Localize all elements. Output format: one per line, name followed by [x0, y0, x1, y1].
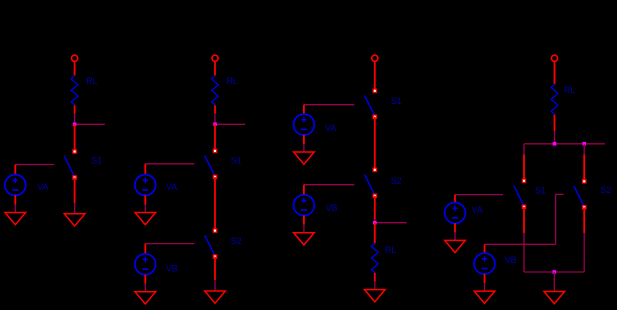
svg-text:S2: S2 — [391, 176, 402, 186]
svg-text:S2: S2 — [231, 236, 242, 246]
svg-text:RL: RL — [86, 76, 97, 86]
svg-text:S1: S1 — [231, 156, 242, 166]
svg-text:VB: VB — [166, 263, 178, 273]
svg-text:S1: S1 — [391, 96, 402, 106]
svg-text:VA: VA — [325, 123, 336, 133]
svg-text:S1: S1 — [535, 185, 546, 195]
svg-text:S1: S1 — [91, 155, 102, 165]
svg-text:RL: RL — [564, 85, 575, 95]
svg-text:RL: RL — [385, 245, 396, 255]
svg-text:VA: VA — [166, 182, 177, 192]
svg-text:VB: VB — [505, 255, 517, 265]
svg-text:VA: VA — [37, 182, 48, 192]
svg-text:VA: VA — [472, 205, 483, 215]
svg-text:RL: RL — [227, 76, 238, 86]
svg-text:VB: VB — [326, 203, 338, 213]
svg-text:S2: S2 — [601, 185, 612, 195]
